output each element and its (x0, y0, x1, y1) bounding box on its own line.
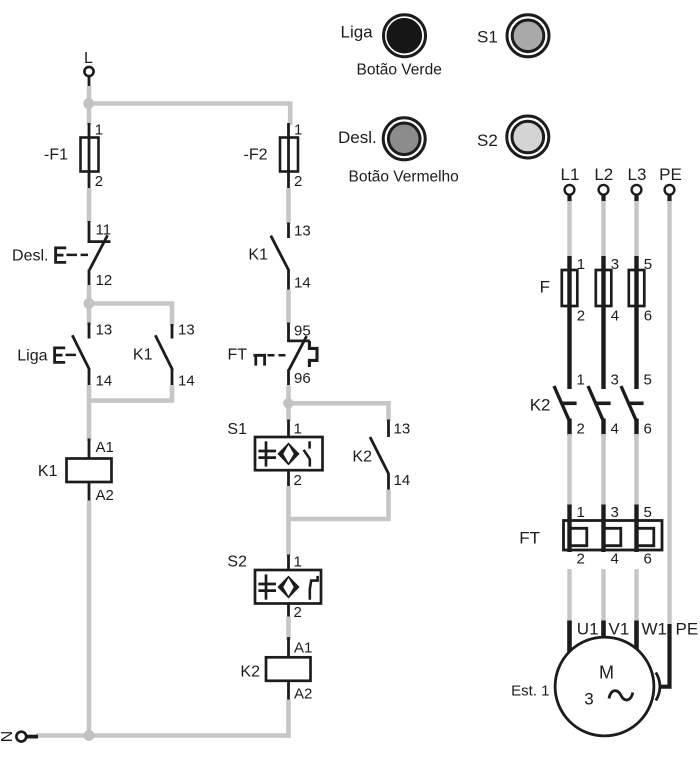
svg-text:5: 5 (644, 504, 652, 521)
svg-text:14: 14 (294, 275, 311, 292)
wire K1 to FT (grey) (286, 290, 291, 325)
wire PE to motor frame (black) (659, 624, 670, 687)
svg-text:2: 2 (577, 308, 585, 325)
wire branch to K1 aux contact (grey) (89, 304, 172, 327)
fuse -F2 (244, 122, 303, 191)
svg-text:13: 13 (394, 421, 411, 438)
motor frame PE arc (656, 673, 660, 701)
wire S2 to K2 coil (grey) (286, 617, 291, 641)
svg-text:K1: K1 (248, 247, 268, 264)
svg-text:Botão Vermelho: Botão Vermelho (349, 169, 459, 186)
wire K2 coil down to N rail (grey) (286, 700, 289, 736)
wire L2 to fuse (grey) (601, 201, 605, 258)
svg-text:K2: K2 (240, 664, 260, 681)
svg-text:6: 6 (644, 551, 652, 568)
wire L1 to fuse (grey) (567, 201, 571, 258)
wire U1 to motor (black) (567, 621, 572, 655)
svg-text:2: 2 (577, 551, 585, 568)
svg-text:Liga: Liga (341, 23, 374, 42)
wire L3 fuse to K2 contact (black) (634, 256, 638, 389)
svg-text:1: 1 (577, 504, 585, 521)
wire V1 to motor (black) (601, 621, 606, 642)
svg-text:S2: S2 (227, 554, 247, 571)
contact K1 NO (lamp branch) (248, 223, 310, 292)
contactor K2 main pole 1 (554, 372, 585, 438)
fuse F pole 3 (629, 256, 652, 325)
FT heater element 2 (604, 528, 621, 545)
junction dot below Desl (84, 298, 95, 309)
contactor K2 main pole 3 (621, 372, 652, 438)
svg-text:14: 14 (178, 373, 195, 390)
wire Desl to branch junction (grey) (87, 285, 92, 325)
svg-text:6: 6 (644, 421, 652, 438)
svg-text:2: 2 (294, 472, 302, 489)
svg-text:13: 13 (96, 322, 113, 339)
svg-text:13: 13 (294, 223, 311, 240)
svg-text:-F2: -F2 (244, 147, 268, 164)
svg-text:1: 1 (294, 554, 302, 571)
coil K2 (240, 637, 312, 703)
svg-text:Desl.: Desl. (338, 128, 377, 147)
svg-text:11: 11 (96, 222, 112, 239)
svg-text:5: 5 (644, 372, 652, 389)
overload relay FT box (564, 521, 663, 551)
fuse F pole 2 (596, 256, 619, 325)
svg-text:2: 2 (95, 173, 103, 190)
fuse -F1 (44, 122, 103, 191)
svg-text:1: 1 (577, 372, 585, 389)
wire branch to K2 aux (grey) (289, 403, 389, 421)
node N terminal (0, 731, 38, 743)
svg-text:3: 3 (584, 690, 593, 709)
svg-text:V1: V1 (609, 620, 630, 639)
wire FT to S1 branch (grey) (286, 385, 291, 421)
svg-text:12: 12 (96, 272, 113, 289)
svg-text:U1: U1 (577, 620, 599, 639)
pushbutton Desl. NC contact (12, 221, 112, 289)
node PE terminal (659, 165, 682, 203)
wire PE down (grey) (667, 201, 671, 626)
lamp unit S2 (227, 554, 321, 622)
svg-text:PE: PE (659, 165, 682, 184)
svg-text:Est. 1: Est. 1 (511, 683, 549, 700)
motor sine symbol (609, 691, 633, 700)
svg-text:S2: S2 (477, 131, 498, 150)
node L terminal (84, 50, 94, 88)
wire Liga down to K1 coil (grey) (87, 385, 92, 441)
svg-text:K1: K1 (133, 347, 153, 364)
svg-text:Botão Verde: Botão Verde (357, 62, 442, 79)
green pushbutton (Liga) (384, 15, 426, 57)
contactor K2 main pole 2 (588, 372, 619, 438)
lamp unit S1 (227, 420, 322, 490)
svg-text:K2: K2 (352, 449, 372, 466)
wire FT pole2 down (grey) (601, 569, 605, 623)
wire below F1 (black then grey) (88, 172, 91, 191)
svg-text:L2: L2 (594, 165, 613, 184)
svg-text:14: 14 (394, 472, 411, 489)
svg-text:13: 13 (178, 322, 195, 339)
svg-text:14: 14 (96, 373, 113, 390)
svg-text:1: 1 (294, 122, 302, 139)
wire L down to fuse F1 (grey) (87, 86, 92, 125)
svg-text:S1: S1 (227, 421, 247, 438)
FT heater element 1 (570, 528, 587, 545)
svg-text:96: 96 (294, 370, 311, 387)
wire S1 to S2 (grey) (286, 486, 291, 556)
svg-text:K2: K2 (530, 396, 551, 415)
wire K2 pole3 to FT (grey) (634, 434, 638, 506)
svg-text:N: N (0, 731, 14, 743)
fuse F pole 1 (562, 256, 585, 325)
node L2 terminal (594, 165, 613, 203)
svg-text:2: 2 (294, 604, 302, 621)
svg-text:A2: A2 (96, 487, 114, 504)
wire L3 to fuse (grey) (634, 201, 638, 258)
wire K1 coil down to N rail (grey) (87, 501, 92, 738)
svg-text:W1: W1 (642, 620, 668, 639)
svg-text:-F1: -F1 (44, 147, 68, 164)
wire below F2 (black then grey) (287, 172, 290, 191)
wire FT pole1 down (grey) (567, 569, 571, 623)
wire into FT pole3 (black) (634, 505, 638, 553)
junction dot at L branch (83, 98, 94, 109)
wire into fuse F2 (black) (287, 123, 290, 140)
wire L1 fuse to K2 contact (black) (567, 256, 571, 389)
svg-text:F: F (540, 278, 550, 297)
svg-text:4: 4 (611, 551, 619, 568)
FT heater element 3 (637, 528, 654, 545)
svg-text:1: 1 (294, 421, 302, 438)
wire FT pole3 down (grey) (634, 569, 638, 623)
wire L2 fuse to K2 contact (black) (601, 256, 605, 389)
node L3 terminal (628, 165, 647, 203)
wire bottom N rail (grey) (36, 733, 291, 738)
pushbutton Liga NO contact (17, 322, 112, 390)
wire into FT pole1 (black) (567, 505, 571, 553)
svg-text:3: 3 (611, 372, 619, 389)
svg-text:FT: FT (519, 529, 540, 548)
svg-text:A2: A2 (294, 686, 312, 703)
contact K2 aux NO (352, 420, 410, 492)
contact FT NC thermal overload (227, 323, 317, 388)
motor M1 circle (555, 637, 654, 736)
indicator lamp S1 (507, 15, 549, 57)
wire top horizontal to F2 branch (grey) (89, 104, 290, 126)
svg-text:L3: L3 (628, 165, 647, 184)
coil K1 (38, 439, 114, 505)
svg-text:4: 4 (611, 308, 619, 325)
svg-text:A1: A1 (96, 439, 114, 456)
svg-text:M: M (599, 663, 614, 683)
wire W1 to motor (black) (634, 621, 639, 655)
svg-text:FT: FT (227, 347, 247, 364)
junction dot on N rail (84, 730, 95, 741)
red pushbutton (Desl.) (383, 118, 425, 160)
svg-text:A1: A1 (294, 640, 312, 657)
svg-text:L1: L1 (561, 165, 580, 184)
junction dot at S1 branch (283, 398, 293, 408)
svg-text:Liga: Liga (17, 348, 47, 365)
svg-text:2: 2 (294, 173, 302, 190)
node L1 terminal (561, 165, 580, 203)
wire K1 aux bottom back to main (grey) (89, 385, 172, 401)
indicator lamp S2 (507, 116, 549, 158)
wire into fuse F1 (black) (88, 123, 91, 140)
wire K2 aux bottom back to main (grey) (289, 490, 389, 520)
svg-text:K1: K1 (38, 463, 58, 480)
svg-text:1: 1 (95, 122, 103, 139)
svg-text:95: 95 (294, 323, 311, 340)
svg-text:3: 3 (611, 504, 619, 521)
svg-text:L: L (84, 50, 93, 67)
svg-text:S1: S1 (477, 28, 498, 47)
wire K2 pole1 to FT (grey) (567, 434, 571, 506)
svg-text:6: 6 (644, 308, 652, 325)
wire K2 pole2 to FT (grey) (601, 434, 605, 506)
svg-text:4: 4 (611, 421, 619, 438)
svg-text:PE: PE (676, 620, 699, 639)
svg-text:2: 2 (577, 421, 585, 438)
contact K1 aux NO (seal-in) (133, 322, 195, 390)
wire into FT pole2 (black) (601, 505, 605, 553)
svg-text:Desl.: Desl. (12, 248, 48, 265)
